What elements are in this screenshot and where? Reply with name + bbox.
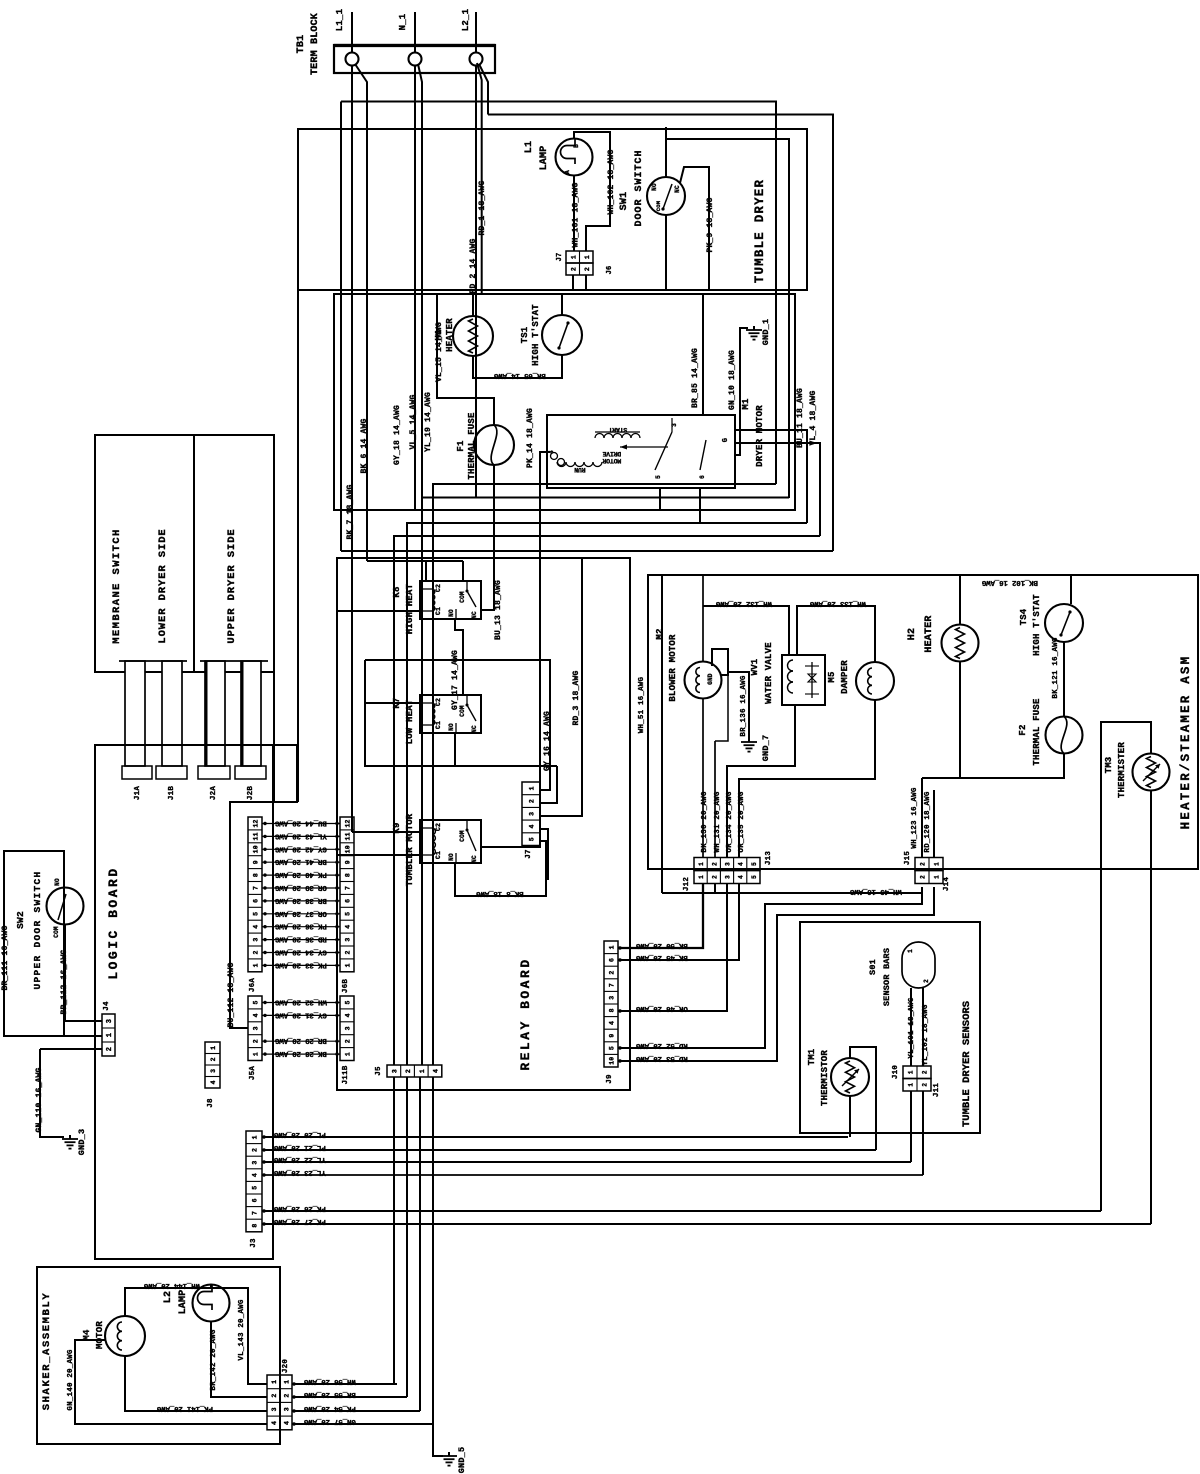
wire TM3 loop	[1101, 722, 1151, 1211]
wire BK_8	[455, 841, 546, 897]
svg-text:WH_133 20_AWG: WH_133 20_AWG	[809, 599, 866, 607]
svg-text:A: A	[564, 170, 571, 174]
svg-text:J12: J12	[683, 877, 691, 891]
svg-text:BK_8 18_AWG: BK_8 18_AWG	[476, 889, 524, 897]
svg-text:MEMBRANE SWITCH: MEMBRANE SWITCH	[111, 528, 123, 644]
svg-text:8: 8	[252, 1223, 259, 1227]
svg-text:B: B	[573, 144, 580, 148]
connector J3	[246, 1131, 262, 1248]
wire PK_141	[125, 1356, 267, 1412]
svg-text:GN_140 20_AWG: GN_140 20_AWG	[67, 1349, 75, 1410]
svg-text:J1B: J1B	[168, 786, 176, 800]
svg-text:J1A: J1A	[134, 786, 142, 800]
svg-text:GY_31 20_AWG: GY_31 20_AWG	[274, 1010, 326, 1018]
svg-text:BK_28 20_AWG: BK_28 20_AWG	[274, 1049, 326, 1057]
wire L1 feed	[351, 12, 353, 53]
wire TM1 loop	[850, 1047, 876, 1150]
svg-text:BR_136 16_AWG: BR_136 16_AWG	[740, 675, 748, 736]
wire GN_10 GND_1	[728, 328, 748, 455]
svg-text:TM1: TM1	[807, 1048, 817, 1065]
svg-text:GND_1: GND_1	[761, 319, 771, 346]
svg-text:GND_3: GND_3	[77, 1129, 87, 1156]
lamp L1	[524, 139, 593, 176]
svg-text:HIGH T'STAT: HIGH T'STAT	[531, 304, 541, 366]
svg-text:5: 5	[253, 1000, 260, 1004]
svg-text:YL_19 14_AWG: YL_19 14_AWG	[424, 392, 433, 452]
svg-text:3: 3	[391, 1069, 398, 1073]
svg-text:1: 1	[609, 945, 616, 949]
svg-text:2: 2	[711, 875, 718, 879]
connector J6B	[340, 817, 354, 993]
svg-text:NO: NO	[651, 183, 658, 191]
svg-text:THERMISTER: THERMISTER	[1117, 742, 1127, 798]
svg-text:S01: S01	[868, 959, 878, 975]
svg-text:GY_16 14_AWG: GY_16 14_AWG	[543, 711, 552, 771]
svg-text:BR_85 14_AWG: BR_85 14_AWG	[691, 348, 700, 408]
svg-text:J6A: J6A	[249, 978, 257, 992]
svg-text:3: 3	[284, 1407, 291, 1411]
svg-text:NO: NO	[448, 853, 455, 861]
svg-text:5: 5	[253, 912, 260, 916]
svg-text:10: 10	[609, 1057, 616, 1065]
switch SW1	[619, 149, 685, 226]
svg-text:SENSOR BARS: SENSOR BARS	[882, 948, 892, 1006]
wire BK_102	[960, 575, 1071, 625]
svg-text:COM: COM	[459, 705, 466, 717]
connector J11B	[340, 996, 354, 1084]
svg-text:OR_39 20_AWG: OR_39 20_AWG	[274, 883, 326, 891]
svg-text:START: START	[608, 426, 627, 433]
sensor bars S01	[868, 942, 935, 1006]
svg-text:UPPER DRYER SIDE: UPPER DRYER SIDE	[226, 528, 238, 643]
wire H1 TS1 bottom	[473, 355, 562, 379]
wire K9 C1 feed	[337, 854, 420, 856]
wire N down	[414, 65, 416, 510]
svg-text:8: 8	[345, 873, 352, 877]
svg-text:11: 11	[345, 832, 352, 840]
svg-text:4: 4	[432, 1069, 439, 1073]
svg-text:5: 5	[609, 1046, 616, 1050]
wire J12p4	[618, 883, 739, 961]
water valve WV1	[750, 642, 825, 705]
wire M1 drop 5	[659, 488, 661, 510]
wire WH_51 vertical	[638, 575, 662, 893]
svg-text:2: 2	[711, 862, 718, 866]
svg-text:4: 4	[738, 862, 745, 866]
thermistor TM1	[807, 1048, 869, 1106]
svg-text:BK_7 18_AWG: BK_7 18_AWG	[346, 484, 355, 539]
connector J7	[522, 782, 540, 859]
wire J14p2	[618, 887, 934, 1062]
wire WV1 top WH_133	[797, 599, 875, 662]
relay K7	[392, 695, 481, 744]
box SW2	[4, 851, 64, 1036]
wire J5p1 down	[393, 1077, 395, 1384]
connector J2A	[198, 766, 230, 800]
svg-text:J5A: J5A	[249, 1066, 257, 1080]
svg-text:TM3: TM3	[1104, 757, 1114, 774]
wire TS1 top	[561, 294, 563, 315]
svg-text:1: 1	[908, 1083, 915, 1087]
motor M1 run coil	[557, 462, 602, 473]
svg-text:1: 1	[345, 1052, 352, 1056]
wire YL_101	[908, 988, 916, 1066]
svg-text:DAMPER: DAMPER	[840, 660, 850, 694]
connector J5A	[248, 996, 262, 1080]
svg-text:J2A: J2A	[210, 786, 218, 800]
wire trunk x341	[340, 102, 342, 552]
svg-text:TS1: TS1	[520, 326, 530, 343]
svg-text:4: 4	[253, 925, 260, 929]
membrane ribbon cables	[119, 661, 268, 766]
svg-text:PK_54 20_AWG: PK_54 20_AWG	[303, 1404, 355, 1412]
wire BR_142	[210, 1322, 267, 1397]
svg-text:PK_33 20_AWG: PK_33 20_AWG	[274, 960, 326, 968]
wire wrap rail 551	[341, 550, 833, 552]
wire M1 out VL_4	[735, 390, 820, 536]
svg-text:PK_40 20_AWG: PK_40 20_AWG	[274, 870, 326, 878]
svg-text:3: 3	[671, 423, 678, 427]
svg-text:J20: J20	[282, 1359, 290, 1373]
wire M2 top WH_132	[703, 575, 789, 661]
connector J10 J11	[892, 1065, 941, 1097]
svg-text:VL_4 18_AWG: VL_4 18_AWG	[809, 390, 818, 445]
motor M1 drive label	[602, 450, 621, 464]
svg-text:WH_161 18_AWG: WH_161 18_AWG	[572, 182, 581, 247]
thermostat TS4	[1019, 594, 1083, 656]
motor M1 arrow	[620, 445, 668, 450]
svg-text:4: 4	[252, 1173, 259, 1177]
svg-text:COM: COM	[655, 200, 662, 211]
wire L1 lamp loop WH_162	[574, 132, 616, 251]
svg-text:K8: K8	[392, 586, 402, 597]
svg-text:HEATER: HEATER	[924, 615, 935, 652]
connector J6A	[248, 817, 262, 992]
svg-text:N_1: N_1	[398, 13, 408, 30]
svg-text:J11: J11	[933, 1083, 941, 1097]
wire PL_21	[262, 1143, 876, 1151]
svg-text:2: 2	[570, 267, 577, 271]
svg-text:M4: M4	[82, 1329, 92, 1341]
svg-text:1: 1	[698, 862, 705, 866]
svg-text:1: 1	[908, 1070, 915, 1074]
svg-text:2: 2	[284, 1393, 291, 1397]
svg-text:5: 5	[345, 1000, 352, 1004]
svg-text:YL_102 18_AWG: YL_102 18_AWG	[922, 1004, 930, 1065]
svg-text:4: 4	[210, 1080, 217, 1084]
wire wrap rail 484	[433, 484, 776, 1065]
svg-text:OR_37 20_AWG: OR_37 20_AWG	[274, 909, 326, 917]
svg-text:BK_130 20_AWG: BK_130 20_AWG	[701, 791, 709, 852]
svg-text:F1: F1	[456, 440, 466, 452]
wire F1 top VL_15	[435, 294, 494, 425]
svg-text:H2: H2	[907, 628, 918, 640]
svg-text:NC: NC	[471, 611, 478, 619]
box TD right edge label	[0, 0, 1, 1]
svg-text:J7: J7	[556, 253, 564, 262]
svg-text:NC: NC	[674, 185, 681, 193]
svg-text:1: 1	[934, 875, 941, 879]
svg-text:1: 1	[210, 1046, 217, 1050]
box relay board	[337, 558, 630, 1090]
svg-text:12: 12	[345, 819, 352, 827]
svg-text:5: 5	[529, 837, 536, 841]
svg-text:HEATER: HEATER	[445, 318, 455, 352]
svg-text:BU_11 18_AWG: BU_11 18_AWG	[796, 388, 805, 448]
svg-text:BK_121 16_AWG: BK_121 16_AWG	[1052, 637, 1060, 698]
svg-text:3: 3	[345, 937, 352, 941]
wire wrap rail 536	[394, 536, 820, 1065]
svg-text:10: 10	[345, 845, 352, 853]
box shaker assembly	[37, 1267, 280, 1444]
svg-text:PK_27 20_AWG: PK_27 20_AWG	[273, 1217, 325, 1225]
wire wrap rail 498	[422, 498, 789, 1066]
svg-text:1: 1	[570, 255, 577, 259]
svg-text:11: 11	[253, 832, 260, 840]
svg-text:BLOWER MOTOR: BLOWER MOTOR	[668, 634, 678, 702]
wire K9 C2 feed	[352, 831, 420, 833]
svg-text:BR_112 16_AWG: BR_112 16_AWG	[60, 949, 69, 1014]
wire GN_140	[67, 1340, 267, 1424]
wire M1 out BU_11	[735, 388, 807, 523]
svg-text:4: 4	[609, 1021, 616, 1025]
wire OR_135	[738, 700, 875, 857]
svg-text:GY_42 20_AWG: GY_42 20_AWG	[274, 844, 326, 852]
svg-text:7: 7	[252, 1211, 259, 1215]
svg-text:OR_46 20_AWG: OR_46 20_AWG	[635, 1004, 687, 1012]
svg-text:BR_142 20_AWG: BR_142 20_AWG	[210, 1329, 218, 1390]
svg-text:YL_22 20_AWG: YL_22 20_AWG	[273, 1155, 325, 1163]
svg-text:L1_1: L1_1	[335, 8, 345, 31]
wire L2 slant	[477, 63, 488, 127]
wire M1 drop 6	[699, 488, 701, 523]
wire RD_120	[924, 790, 934, 857]
svg-text:12: 12	[253, 819, 260, 827]
svg-text:RD_53 20_AWG: RD_53 20_AWG	[635, 1054, 687, 1062]
svg-text:BK_50 20_AWG: BK_50 20_AWG	[635, 941, 687, 949]
svg-text:1: 1	[252, 1135, 259, 1139]
svg-text:4: 4	[271, 1421, 278, 1425]
connector J5	[375, 1065, 442, 1077]
svg-text:DRIVE: DRIVE	[602, 450, 621, 457]
svg-text:4: 4	[738, 875, 745, 879]
svg-text:LAMP: LAMP	[539, 146, 550, 171]
svg-text:NO: NO	[448, 723, 455, 731]
svg-text:F2: F2	[1018, 724, 1028, 735]
wire J5p4 down	[432, 1077, 434, 1424]
svg-text:3: 3	[529, 812, 536, 816]
svg-text:2: 2	[609, 970, 616, 974]
connector J1B	[156, 766, 187, 800]
svg-text:PK_26 20_AWG: PK_26 20_AWG	[273, 1204, 325, 1212]
svg-text:1: 1	[106, 1033, 114, 1037]
svg-text:TERM BLOCK: TERM BLOCK	[310, 13, 321, 75]
connector J2B	[235, 766, 266, 800]
svg-text:5: 5	[345, 912, 352, 916]
svg-text:C2: C2	[435, 823, 442, 831]
svg-text:OR_135 20_AWG: OR_135 20_AWG	[738, 791, 746, 852]
svg-text:SW2: SW2	[15, 911, 26, 929]
damper M5	[827, 660, 894, 700]
svg-text:2: 2	[923, 979, 930, 983]
svg-text:GY_34 20_AWG: GY_34 20_AWG	[274, 948, 326, 956]
svg-text:G: G	[722, 438, 730, 442]
wire RD_3	[540, 558, 582, 816]
svg-text:2: 2	[922, 1070, 929, 1074]
svg-text:GN_110 16_AWG: GN_110 16_AWG	[35, 1067, 44, 1132]
box logic board	[95, 745, 273, 1259]
motor M1 plug	[551, 453, 565, 466]
wire BR_111	[1, 925, 10, 990]
wire BR_112	[60, 924, 102, 1021]
svg-text:9: 9	[253, 860, 260, 864]
box membrane switch	[95, 435, 274, 672]
svg-text:2: 2	[405, 1069, 412, 1073]
wire GN_110 GND_3	[35, 1049, 102, 1137]
svg-text:BR_55 20_AWG: BR_55 20_AWG	[303, 1390, 355, 1398]
svg-text:WV1: WV1	[750, 658, 760, 675]
svg-text:J13: J13	[765, 851, 773, 865]
wire J5p3 down	[419, 1077, 421, 1411]
wire YL_22	[262, 1155, 911, 1163]
svg-text:J6B: J6B	[342, 979, 350, 993]
svg-text:3: 3	[210, 1069, 217, 1073]
box tumble dryer sensors	[800, 922, 980, 1133]
wire J7 pin4	[540, 829, 548, 880]
svg-text:3: 3	[725, 875, 732, 879]
thermal fuse F1	[456, 412, 514, 480]
svg-text:GND_5: GND_5	[457, 1447, 467, 1474]
wire L2 down	[475, 65, 477, 497]
svg-text:WH_56 20_AWG: WH_56 20_AWG	[303, 1377, 355, 1385]
svg-text:TUMBLER MOTOR: TUMBLER MOTOR	[405, 813, 415, 886]
thermal fuse F2	[1018, 698, 1083, 766]
wire WH_56	[292, 1377, 397, 1385]
svg-text:1: 1	[345, 963, 352, 967]
svg-text:2: 2	[252, 1148, 259, 1152]
wire SW1 COM down	[665, 215, 667, 290]
svg-text:2: 2	[920, 862, 927, 866]
svg-text:2: 2	[345, 950, 352, 954]
wire K7 wrap	[365, 660, 557, 766]
svg-text:4: 4	[345, 925, 352, 929]
wire M1 pin4 PK_14	[481, 408, 550, 847]
svg-text:10: 10	[253, 845, 260, 853]
svg-text:2: 2	[922, 1083, 929, 1087]
svg-text:RD_2 14_AWG: RD_2 14_AWG	[469, 238, 478, 293]
svg-text:C1: C1	[435, 851, 442, 859]
wire M2 gnd loop	[712, 649, 728, 675]
wire WH_49	[662, 883, 922, 895]
svg-text:DRYER MOTOR: DRYER MOTOR	[755, 405, 765, 467]
svg-text:C1: C1	[435, 721, 442, 729]
svg-text:GY_17 14_AWG: GY_17 14_AWG	[451, 650, 460, 710]
svg-text:3: 3	[252, 1160, 259, 1164]
svg-text:1: 1	[253, 1052, 260, 1056]
wire BR_136 GND_7	[728, 672, 749, 738]
wire membrane right edge down	[273, 672, 275, 802]
svg-text:J7: J7	[525, 849, 533, 858]
svg-text:2: 2	[529, 799, 536, 803]
svg-text:TS4: TS4	[1019, 608, 1029, 625]
wire GN_57	[292, 1417, 443, 1456]
motor M1 start coil	[595, 426, 640, 438]
svg-text:J3: J3	[250, 1238, 258, 1248]
wire WH_144	[125, 1281, 211, 1316]
svg-text:TB1: TB1	[296, 35, 307, 54]
svg-text:BR_65 14_AWG: BR_65 14_AWG	[493, 371, 545, 379]
svg-text:RELAY BOARD: RELAY BOARD	[518, 957, 533, 1070]
svg-text:3: 3	[271, 1407, 278, 1411]
svg-text:WATER VALVE: WATER VALVE	[764, 642, 774, 704]
svg-text:J15: J15	[904, 851, 912, 865]
svg-text:MOTOR: MOTOR	[95, 1321, 105, 1349]
rail A top	[341, 102, 776, 485]
svg-text:8: 8	[609, 1008, 616, 1012]
svg-text:3: 3	[345, 1026, 352, 1030]
svg-text:VL_143 20_AWG: VL_143 20_AWG	[238, 1299, 246, 1360]
svg-text:7: 7	[253, 886, 260, 890]
svg-text:BK_102 16_AWG: BK_102 16_AWG	[981, 578, 1038, 586]
wire BU_112	[227, 745, 297, 1028]
svg-text:COM: COM	[459, 591, 466, 603]
wire N feed	[414, 12, 416, 53]
svg-text:3: 3	[253, 937, 260, 941]
svg-text:OR_134 20_AWG: OR_134 20_AWG	[726, 791, 734, 852]
svg-text:4: 4	[284, 1421, 291, 1425]
svg-text:J6: J6	[606, 266, 614, 275]
wire PK_27	[262, 1217, 1151, 1225]
wire N slant	[418, 64, 422, 497]
wire J11p1 down	[910, 1091, 912, 1162]
svg-text:1: 1	[698, 875, 705, 879]
svg-text:J2B: J2B	[247, 786, 255, 800]
svg-text:J4: J4	[103, 1001, 111, 1011]
svg-text:PL_20 20_AWG: PL_20 20_AWG	[273, 1130, 325, 1138]
svg-text:PK_36 20_AWG: PK_36 20_AWG	[274, 922, 326, 930]
svg-text:5: 5	[751, 862, 758, 866]
svg-text:YL_23 20_AWG: YL_23 20_AWG	[273, 1168, 325, 1176]
svg-text:L2: L2	[163, 1291, 174, 1303]
svg-text:4: 4	[253, 1013, 260, 1017]
wire BK_121	[1052, 637, 1064, 717]
connector J7 J6	[556, 251, 614, 275]
svg-text:VL_5 14_AWG: VL_5 14_AWG	[409, 394, 418, 449]
connector J8	[205, 1042, 220, 1108]
svg-text:J11B: J11B	[342, 1065, 350, 1084]
svg-text:NC: NC	[471, 725, 478, 733]
svg-text:NC: NC	[471, 855, 478, 863]
wire BR_55	[292, 1390, 407, 1398]
svg-text:2: 2	[253, 1039, 260, 1043]
wires J5A-J11B	[262, 998, 340, 1058]
blower motor M2	[655, 628, 722, 701]
wire TM3 bottom	[1150, 791, 1152, 1224]
svg-text:7: 7	[609, 983, 616, 987]
svg-text:J10: J10	[892, 1065, 900, 1079]
wire PK_9	[680, 167, 715, 290]
svg-text:HIGH T'STAT: HIGH T'STAT	[1032, 594, 1042, 656]
rail C sw1	[666, 139, 789, 498]
svg-text:1: 1	[284, 1380, 291, 1384]
svg-text:BU_112 18_AWG: BU_112 18_AWG	[227, 962, 236, 1027]
motor M1 switch	[548, 418, 730, 479]
svg-text:MOTOR: MOTOR	[602, 457, 621, 464]
svg-text:5: 5	[655, 475, 662, 479]
svg-text:J8: J8	[207, 1098, 215, 1108]
svg-text:1: 1	[271, 1380, 278, 1384]
svg-text:RD_3 18_AWG: RD_3 18_AWG	[572, 670, 581, 725]
